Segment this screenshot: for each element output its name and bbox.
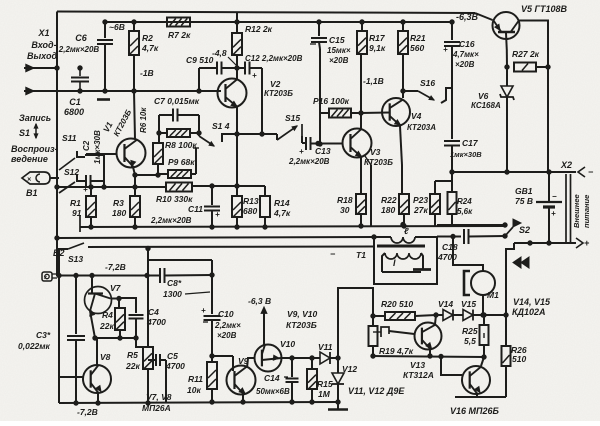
svg-text:Выход: Выход xyxy=(27,51,57,61)
resistor R11 xyxy=(207,356,217,404)
svg-text:GB1: GB1 xyxy=(515,186,533,196)
wire V1 base xyxy=(86,153,117,155)
svg-text:V9, V10: V9, V10 xyxy=(287,309,318,319)
svg-text:Р16 100к: Р16 100к xyxy=(313,96,350,106)
resistor R17 xyxy=(357,20,367,54)
svg-text:R3: R3 xyxy=(113,198,124,208)
svg-text:4,7к: 4,7к xyxy=(273,208,291,218)
label R4 xyxy=(99,310,114,331)
label V13 xyxy=(403,360,434,380)
svg-text:V12: V12 xyxy=(342,364,357,374)
label V9 xyxy=(238,356,249,366)
diode V11 xyxy=(320,352,340,364)
svg-text:КТ312А: КТ312А xyxy=(403,370,434,380)
svg-text:1мк×30В: 1мк×30В xyxy=(93,130,102,164)
ground symbol xyxy=(328,402,348,410)
svg-text:V2: V2 xyxy=(270,79,281,89)
svg-text:КТ203А: КТ203А xyxy=(407,123,436,132)
transistor V9 KT203B xyxy=(227,366,256,395)
svg-text:С6: С6 xyxy=(75,33,87,43)
resistor R8 xyxy=(157,129,199,137)
symbol rewind xyxy=(513,257,529,268)
wire right drop xyxy=(504,243,514,346)
battery GB1 xyxy=(536,172,562,243)
label V1 xyxy=(101,108,134,138)
zener V6 KS168A xyxy=(500,67,514,172)
resistor R15 xyxy=(307,358,317,404)
svg-text:0,022мк: 0,022мк xyxy=(18,341,51,351)
connector B2 xyxy=(42,272,57,282)
label R8 xyxy=(165,140,197,150)
svg-text:+: + xyxy=(252,71,257,80)
capacitor C5 xyxy=(148,354,166,403)
wire fb left rail xyxy=(158,115,160,143)
svg-text:V6: V6 xyxy=(478,91,489,101)
head B1 xyxy=(22,172,59,184)
svg-text:~6В: ~6В xyxy=(109,22,125,32)
svg-text:-1,1В: -1,1В xyxy=(363,76,384,86)
label R27 xyxy=(512,49,540,59)
label R3 xyxy=(112,198,126,218)
resistor R7 xyxy=(167,18,190,27)
svg-text:X2: X2 xyxy=(560,160,572,170)
label C8 xyxy=(163,278,210,299)
svg-text:4700: 4700 xyxy=(437,252,457,262)
label C13 xyxy=(288,146,331,166)
label V12 xyxy=(342,364,357,374)
wire V5 branch down xyxy=(547,67,549,172)
svg-text:R22: R22 xyxy=(381,195,397,205)
svg-text:R19 4,7к: R19 4,7к xyxy=(379,346,414,356)
label R16 xyxy=(313,96,350,106)
wire S2 out xyxy=(514,242,530,244)
svg-text:ℓ: ℓ xyxy=(404,226,409,236)
motor brush bracket xyxy=(464,271,470,295)
svg-text:S13: S13 xyxy=(68,254,83,264)
resistor R19 xyxy=(369,316,378,358)
resistor R26 xyxy=(502,346,511,397)
svg-text:С10: С10 xyxy=(218,309,234,319)
svg-text:2,2мк×20В: 2,2мк×20В xyxy=(288,157,330,166)
svg-text:ведение: ведение xyxy=(11,154,48,164)
wire motor top xyxy=(453,237,483,272)
capacitor C14 xyxy=(284,358,299,404)
connector X1 arrow upper xyxy=(24,64,34,71)
svg-text:15мк×: 15мк× xyxy=(327,46,351,55)
node input lower wire xyxy=(24,90,105,92)
transistor V13 KT312A xyxy=(415,323,442,350)
wire -6V branch rail xyxy=(105,21,452,23)
svg-text:-7,2В: -7,2В xyxy=(105,262,126,272)
svg-text:22к: 22к xyxy=(125,361,140,371)
svg-text:С12 2,2мк×20В: С12 2,2мк×20В xyxy=(245,54,303,63)
resistor R6 xyxy=(153,143,163,175)
label -7.2V bottom xyxy=(77,407,98,417)
label T1 xyxy=(330,249,366,260)
label X1 xyxy=(27,28,57,61)
svg-text:КТ203Б: КТ203Б xyxy=(364,158,393,167)
svg-text:V5 ГТ108В: V5 ГТ108В xyxy=(521,4,568,14)
svg-text:−: − xyxy=(330,249,336,259)
svg-text:С9 510: С9 510 xyxy=(186,55,214,65)
svg-text:4700: 4700 xyxy=(146,317,166,327)
svg-text:КД102А: КД102А xyxy=(512,307,546,317)
wire V8 base xyxy=(59,376,84,378)
svg-text:КС168А: КС168А xyxy=(471,101,501,110)
svg-text:V11: V11 xyxy=(318,342,333,352)
svg-text:X1: X1 xyxy=(37,28,49,38)
svg-text:+: + xyxy=(443,45,448,54)
wire C12 down xyxy=(261,68,263,134)
svg-text:50мк×6В: 50мк×6В xyxy=(256,387,290,396)
svg-text:+: + xyxy=(299,147,304,156)
label R12 xyxy=(245,24,273,34)
label -4.8 xyxy=(212,48,237,66)
svg-text:R13: R13 xyxy=(243,196,259,206)
label V14 xyxy=(438,299,453,309)
label R13 xyxy=(243,196,259,216)
wire input to V2 base xyxy=(103,89,221,93)
connector X1 arrow lower xyxy=(24,87,34,94)
label S1.3 xyxy=(68,254,83,264)
capacitor C1 xyxy=(71,66,89,93)
svg-text:КТ203Б: КТ203Б xyxy=(264,89,293,98)
label R9 xyxy=(168,157,195,167)
wire V13 emitter xyxy=(429,349,431,356)
svg-text:R27 2к: R27 2к xyxy=(512,49,540,59)
wire S13 jog xyxy=(148,259,212,261)
wire V7 emitter xyxy=(90,311,97,340)
svg-text:2,2мк×20В: 2,2мк×20В xyxy=(58,45,100,54)
wire emitter row xyxy=(373,354,486,359)
label -1.1V xyxy=(363,76,384,86)
transformer T1 secondary xyxy=(382,253,431,272)
svg-text:V14, V15: V14, V15 xyxy=(513,297,551,307)
transistor V2 KT203B xyxy=(218,79,247,108)
node input upper wire xyxy=(24,66,59,70)
label C10 xyxy=(214,309,241,340)
label R11 xyxy=(187,374,203,395)
wire det line xyxy=(282,356,321,360)
svg-text:С18: С18 xyxy=(442,242,458,252)
wire mid row xyxy=(95,337,136,339)
transistor V5 GT108V xyxy=(493,12,520,39)
switch S1.2 xyxy=(59,175,84,193)
svg-text:+: + xyxy=(83,185,88,194)
svg-text:S12: S12 xyxy=(64,167,79,177)
capacitor C9 xyxy=(199,62,237,92)
label V6 xyxy=(471,91,501,110)
label -6.3V top xyxy=(456,12,479,22)
label C3 xyxy=(18,330,51,351)
svg-text:S1: S1 xyxy=(19,128,30,138)
svg-text:×: × xyxy=(44,276,48,282)
svg-text:×20В: ×20В xyxy=(217,331,237,340)
connector X2 minus xyxy=(578,167,594,177)
resistor R18 xyxy=(356,194,366,228)
label M1 xyxy=(487,290,499,300)
capacitor C6 xyxy=(97,20,113,100)
switch S1.6 xyxy=(403,88,452,103)
wire diode line xyxy=(436,314,443,316)
label V8 xyxy=(100,352,111,362)
svg-text:5,6к: 5,6к xyxy=(457,207,473,216)
label V15 xyxy=(461,299,476,309)
wire common bus xyxy=(80,215,505,232)
motor M1 xyxy=(471,271,495,295)
label -7.2V top xyxy=(105,262,126,272)
resistor R12 xyxy=(232,13,242,68)
svg-text:V3: V3 xyxy=(370,147,381,157)
resistor R9 xyxy=(159,170,196,178)
wire V13 collector xyxy=(435,315,436,324)
svg-text:R20 510: R20 510 xyxy=(381,299,413,309)
resistor R3 xyxy=(130,187,140,229)
label B1 xyxy=(26,188,38,198)
label R5 xyxy=(125,350,140,371)
svg-text:С7 0,015мк: С7 0,015мк xyxy=(154,96,200,106)
svg-text:Воспроиз-: Воспроиз- xyxy=(11,144,58,154)
diode V12 xyxy=(332,358,344,404)
wire long line3 S1.3 xyxy=(57,248,68,250)
label R10 xyxy=(156,194,193,204)
svg-text:+: + xyxy=(584,238,590,248)
svg-text:С13: С13 xyxy=(315,146,331,156)
svg-text:×: × xyxy=(27,177,31,184)
svg-text:-6,3 В: -6,3 В xyxy=(248,296,271,306)
label C12 xyxy=(245,54,303,63)
label R17 xyxy=(369,33,386,53)
transistor V4 KT203A xyxy=(382,98,410,126)
wire R16 left down xyxy=(318,49,322,146)
svg-text:22к: 22к xyxy=(99,321,114,331)
resistor R21 xyxy=(398,20,408,98)
svg-text:В2: В2 xyxy=(53,248,65,258)
svg-text:R25: R25 xyxy=(462,326,478,336)
transistor V16 MP26B xyxy=(462,366,490,394)
svg-text:1М: 1М xyxy=(318,389,331,399)
label C14 xyxy=(256,373,290,396)
label C18 xyxy=(437,242,458,262)
svg-text:510: 510 xyxy=(512,354,526,364)
label V11V12 xyxy=(348,386,405,396)
svg-text:5,5: 5,5 xyxy=(464,336,476,346)
diode V15 xyxy=(463,310,506,321)
svg-text:S15: S15 xyxy=(285,113,300,123)
wire line2 through T1 xyxy=(374,236,437,238)
label Vosproiz xyxy=(11,144,58,164)
svg-text:4700: 4700 xyxy=(165,361,185,371)
resistor R5 xyxy=(143,246,153,405)
svg-text:-7,2В: -7,2В xyxy=(77,407,98,417)
svg-text:Р23: Р23 xyxy=(413,195,428,205)
label GB1 xyxy=(515,186,533,206)
svg-text:R5: R5 xyxy=(127,350,138,360)
resistor R24 xyxy=(435,146,457,226)
svg-text:V11, V12 Д9Е: V11, V12 Д9Е xyxy=(348,386,405,396)
wire V16 base xyxy=(441,357,462,375)
svg-text:2,2мк×: 2,2мк× xyxy=(214,321,241,330)
svg-text:R12 2к: R12 2к xyxy=(245,24,273,34)
label C11 xyxy=(150,204,203,225)
label S1 switch xyxy=(19,124,38,138)
capacitor C7 xyxy=(159,109,199,122)
capacitor C17 xyxy=(444,88,460,174)
svg-text:Запись: Запись xyxy=(19,113,51,123)
svg-text:питание: питание xyxy=(582,195,591,228)
wire V7 base drop xyxy=(91,276,93,294)
label S1.4 xyxy=(212,121,230,131)
label R1 xyxy=(70,198,82,218)
svg-text:×20В: ×20В xyxy=(329,56,349,65)
svg-text:С3*: С3* xyxy=(36,330,51,340)
wire V8 emitter xyxy=(96,392,100,405)
label V10 xyxy=(280,339,295,349)
transistor V3 KT203B xyxy=(343,129,372,158)
svg-text:Р9 68к: Р9 68к xyxy=(168,157,195,167)
wire V13 base xyxy=(389,331,415,334)
svg-text:-4,8: -4,8 xyxy=(212,48,227,58)
wire reg top xyxy=(338,288,375,358)
svg-text:V13: V13 xyxy=(410,360,425,370)
wire X2 line xyxy=(452,170,576,174)
resistor R13 xyxy=(232,186,242,229)
svg-text:680: 680 xyxy=(243,206,257,216)
svg-text:2,2мк×20В: 2,2мк×20В xyxy=(150,216,192,225)
wire V5 bottom xyxy=(505,33,550,69)
resistor R14 xyxy=(260,186,270,229)
label V14V15 xyxy=(512,297,551,317)
svg-text:В1: В1 xyxy=(26,188,38,198)
wire V5 right xyxy=(518,21,548,68)
svg-text:S2: S2 xyxy=(519,225,530,235)
label R19 xyxy=(379,346,414,356)
svg-text:−: − xyxy=(552,192,557,201)
wire V9 coll to V10 base xyxy=(247,358,255,368)
wire V7 collector xyxy=(111,296,122,300)
label S1.5 xyxy=(285,113,300,123)
svg-text:М1: М1 xyxy=(487,290,499,300)
label C4 xyxy=(146,307,166,327)
transistor V8 MP26A xyxy=(83,365,111,393)
resistor R1 xyxy=(86,187,96,229)
wire bias line xyxy=(55,185,166,189)
label V3 xyxy=(364,147,393,167)
svg-text:27к: 27к xyxy=(413,205,428,215)
label S1.6 xyxy=(420,78,435,88)
wire V1 base vertical xyxy=(103,155,105,187)
label V16 xyxy=(450,406,499,416)
svg-text:9,1к: 9,1к xyxy=(369,43,386,53)
svg-text:R2: R2 xyxy=(142,33,153,43)
label I sec xyxy=(393,258,396,268)
label S1.1 xyxy=(62,133,77,143)
wire V16 collector xyxy=(481,357,484,366)
svg-text:Вход-: Вход- xyxy=(31,40,56,50)
label X2 xyxy=(560,160,572,170)
label -6.3V mid xyxy=(248,296,271,306)
switch S2 xyxy=(437,219,521,236)
svg-text:×20В: ×20В xyxy=(455,60,475,69)
svg-text:Т1: Т1 xyxy=(356,250,366,260)
svg-text:R1: R1 xyxy=(70,198,81,208)
label ~6V xyxy=(109,22,125,32)
label C1 xyxy=(64,97,84,117)
svg-text:+: + xyxy=(551,209,556,218)
label R15 xyxy=(317,379,333,399)
wire B2 line xyxy=(57,273,161,277)
wire motor bottom xyxy=(481,295,485,317)
transistor V10 KT203B xyxy=(255,345,282,372)
transistor V7 MP26A xyxy=(85,287,112,317)
label V11 xyxy=(318,342,333,352)
label R6 rot xyxy=(139,107,148,133)
svg-text:КТ203Б: КТ203Б xyxy=(286,320,317,330)
svg-text:6800: 6800 xyxy=(64,107,84,117)
svg-text:−: − xyxy=(588,167,594,177)
label C7 xyxy=(154,96,200,106)
label C6 xyxy=(58,33,100,54)
capacitor C12 xyxy=(237,62,262,81)
svg-text:V7: V7 xyxy=(110,283,122,293)
svg-text:Внешнее: Внешнее xyxy=(572,194,581,228)
capacitor C16 xyxy=(443,20,460,88)
label V5 xyxy=(521,4,568,14)
wire bottom rail xyxy=(59,402,338,403)
svg-text:С16: С16 xyxy=(459,39,475,49)
resistor R27 xyxy=(514,63,548,72)
wire long line2 xyxy=(55,235,376,240)
resistor R4 xyxy=(115,298,125,340)
label R18 xyxy=(337,195,353,215)
wire V3C to V4 base xyxy=(361,112,390,115)
svg-text:V7, V8: V7, V8 xyxy=(146,392,172,402)
wire V9 emitter xyxy=(241,394,245,404)
wire V2 emitter xyxy=(236,107,238,186)
label S1.2 xyxy=(64,167,79,177)
svg-text:+: + xyxy=(215,210,220,219)
capacitor C10 xyxy=(201,306,221,358)
external power connector xyxy=(566,174,571,242)
svg-text:V14: V14 xyxy=(438,299,453,309)
svg-text:R10 330к: R10 330к xyxy=(156,194,193,204)
svg-text:R6 10к: R6 10к xyxy=(139,107,148,133)
svg-text:С2: С2 xyxy=(82,140,91,151)
svg-text:-6,3В: -6,3В xyxy=(456,12,479,22)
svg-text:С8*: С8* xyxy=(167,278,182,288)
wire V8 collector xyxy=(96,338,98,366)
label R21 xyxy=(410,33,426,53)
label V7V8 xyxy=(142,392,172,413)
svg-text:R17: R17 xyxy=(369,33,386,43)
label R23 xyxy=(413,195,428,215)
svg-text:30: 30 xyxy=(340,205,350,215)
svg-text:V15: V15 xyxy=(461,299,476,309)
label R20 xyxy=(381,299,413,309)
svg-text:R11: R11 xyxy=(188,374,203,384)
resistor R23 xyxy=(430,181,440,226)
label l prim xyxy=(404,226,409,236)
label R14 xyxy=(273,198,291,218)
svg-text:S1 4: S1 4 xyxy=(212,121,230,131)
resistor R20 xyxy=(373,312,438,320)
svg-text:С15: С15 xyxy=(329,35,345,45)
label V7 xyxy=(110,283,122,293)
capacitor C8 xyxy=(160,268,214,283)
label R2 xyxy=(141,33,159,53)
label R24 xyxy=(457,197,473,216)
resistor R25 xyxy=(480,315,489,357)
